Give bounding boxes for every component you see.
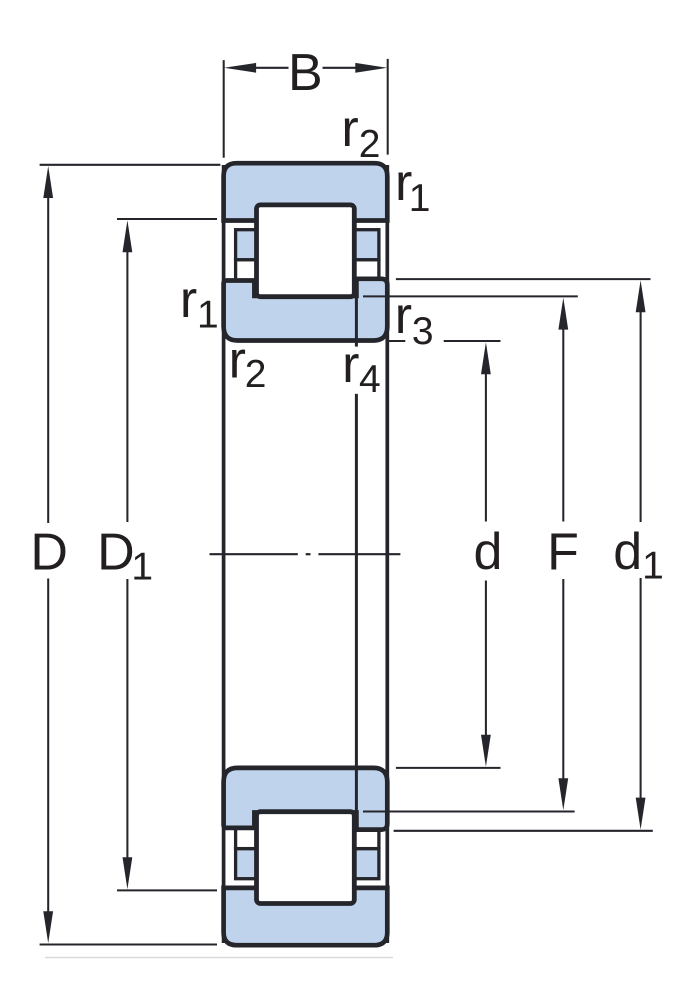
top bearing section [224, 163, 388, 340]
B dimension line + arrows [254, 67, 289, 69]
svg-text:r: r [395, 287, 412, 345]
svg-text:B: B [288, 44, 323, 102]
faint ghost line below bottom section [45, 957, 393, 959]
F extension top [363, 295, 578, 297]
d extension top (two segments around r3 label) [387, 340, 406, 342]
d extension bottom [396, 767, 501, 769]
d1 extension top [396, 278, 651, 280]
svg-text:D: D [30, 523, 68, 581]
d1 dimension arrow [636, 280, 646, 312]
flange ring boundary line r4 long segment [355, 394, 358, 813]
svg-text:4: 4 [359, 358, 381, 401]
side face line right [385, 165, 389, 943]
D extension top [40, 164, 221, 166]
flange ring boundary line r4 upper segment [355, 294, 358, 347]
svg-text:1: 1 [642, 544, 664, 587]
centerline (axis) [210, 553, 298, 555]
d1 extension bottom [394, 830, 653, 832]
svg-text:d: d [613, 523, 642, 581]
side face line left [222, 165, 226, 943]
D extension bottom [40, 943, 217, 945]
B extension line right [387, 59, 389, 155]
D1 extension top [117, 218, 217, 220]
svg-text:F: F [547, 523, 579, 581]
svg-text:r: r [180, 271, 197, 329]
D1 dimension arrow [123, 220, 133, 252]
svg-text:3: 3 [412, 310, 434, 353]
F dimension arrow [558, 298, 568, 330]
svg-text:r: r [342, 336, 359, 394]
B extension line left [223, 60, 225, 158]
svg-text:1: 1 [409, 177, 431, 220]
bottom bearing section (mirrored) [224, 768, 388, 945]
svg-text:d: d [474, 523, 503, 581]
svg-text:2: 2 [245, 353, 267, 396]
svg-text:r: r [341, 100, 358, 158]
F extension bottom [363, 810, 575, 812]
D dimension arrow [43, 166, 53, 198]
D1 extension bottom [117, 889, 217, 891]
svg-text:2: 2 [359, 123, 381, 166]
svg-text:D: D [97, 523, 135, 581]
d dimension arrow [481, 342, 491, 374]
svg-text:1: 1 [131, 545, 153, 588]
svg-text:r: r [229, 331, 246, 389]
svg-text:1: 1 [197, 294, 219, 337]
